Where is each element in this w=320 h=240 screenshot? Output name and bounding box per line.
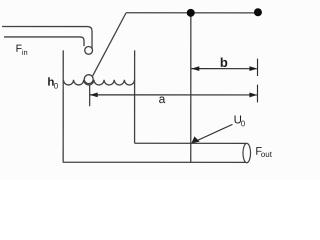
valve ball bbox=[85, 46, 93, 54]
dimension a extension line (left, at float) bbox=[89, 85, 91, 106]
node dot left bbox=[187, 9, 195, 17]
arrowhead U0 bbox=[191, 136, 199, 143]
tank right wall bbox=[134, 50, 136, 143]
outlet pipe end ellipse bbox=[243, 143, 251, 162]
U0 arrow line bbox=[193, 124, 232, 142]
float bbox=[84, 75, 93, 84]
vertical stem from node bbox=[190, 13, 192, 162]
arrowhead b right bbox=[249, 66, 257, 71]
dimension a line bbox=[90, 94, 258, 96]
dimension b right tick bbox=[257, 59, 259, 76]
label F_in bbox=[16, 43, 28, 57]
tank bottom / outlet pipe bottom wall bbox=[63, 161, 247, 163]
arrowhead a left bbox=[90, 92, 98, 97]
arrowhead b left bbox=[191, 66, 199, 71]
svg-text:b: b bbox=[220, 55, 228, 70]
tank left wall bbox=[62, 50, 64, 161]
outlet pipe top wall bbox=[135, 142, 247, 144]
dimension b line bbox=[191, 68, 257, 70]
dimension a right tick bbox=[256, 85, 258, 103]
inlet pipe top wall bbox=[2, 27, 92, 49]
top link line bbox=[126, 12, 258, 14]
arrowhead a right bbox=[249, 93, 257, 98]
label U0 bbox=[234, 114, 246, 128]
svg-text:in: in bbox=[22, 48, 28, 57]
lever arm (diagonal) bbox=[92, 13, 126, 77]
label F_out bbox=[255, 146, 272, 159]
svg-text:out: out bbox=[261, 150, 273, 159]
label h0 bbox=[47, 77, 58, 91]
node dot right bbox=[254, 8, 262, 16]
svg-text:a: a bbox=[159, 92, 166, 106]
svg-text:0: 0 bbox=[241, 119, 246, 128]
water surface wave bbox=[63, 80, 134, 85]
svg-text:0: 0 bbox=[54, 81, 59, 90]
inlet pipe bottom wall bbox=[4, 37, 84, 46]
